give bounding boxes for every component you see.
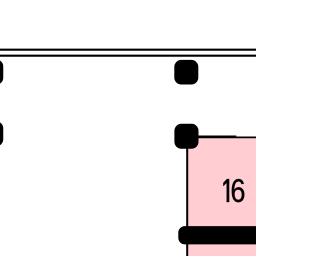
node C (left, row 2, clipped) xyxy=(0,121,3,146)
wire: double line bottom xyxy=(0,55,256,57)
wire: region top border thin segment xyxy=(186,136,256,138)
region 16 (pink room) xyxy=(186,137,256,256)
node A (left, row 1, clipped) xyxy=(0,59,3,84)
node B (row 1) xyxy=(174,60,198,85)
wire: region left border xyxy=(186,136,188,256)
label 16 digit 6 xyxy=(232,179,245,202)
label 16 digit 1 xyxy=(223,179,229,202)
wire: region top border thick segment xyxy=(186,136,236,138)
node D (row 2) xyxy=(174,124,198,149)
thick wall bar (rounded cap) xyxy=(178,226,263,244)
wire: double line top xyxy=(0,49,256,51)
